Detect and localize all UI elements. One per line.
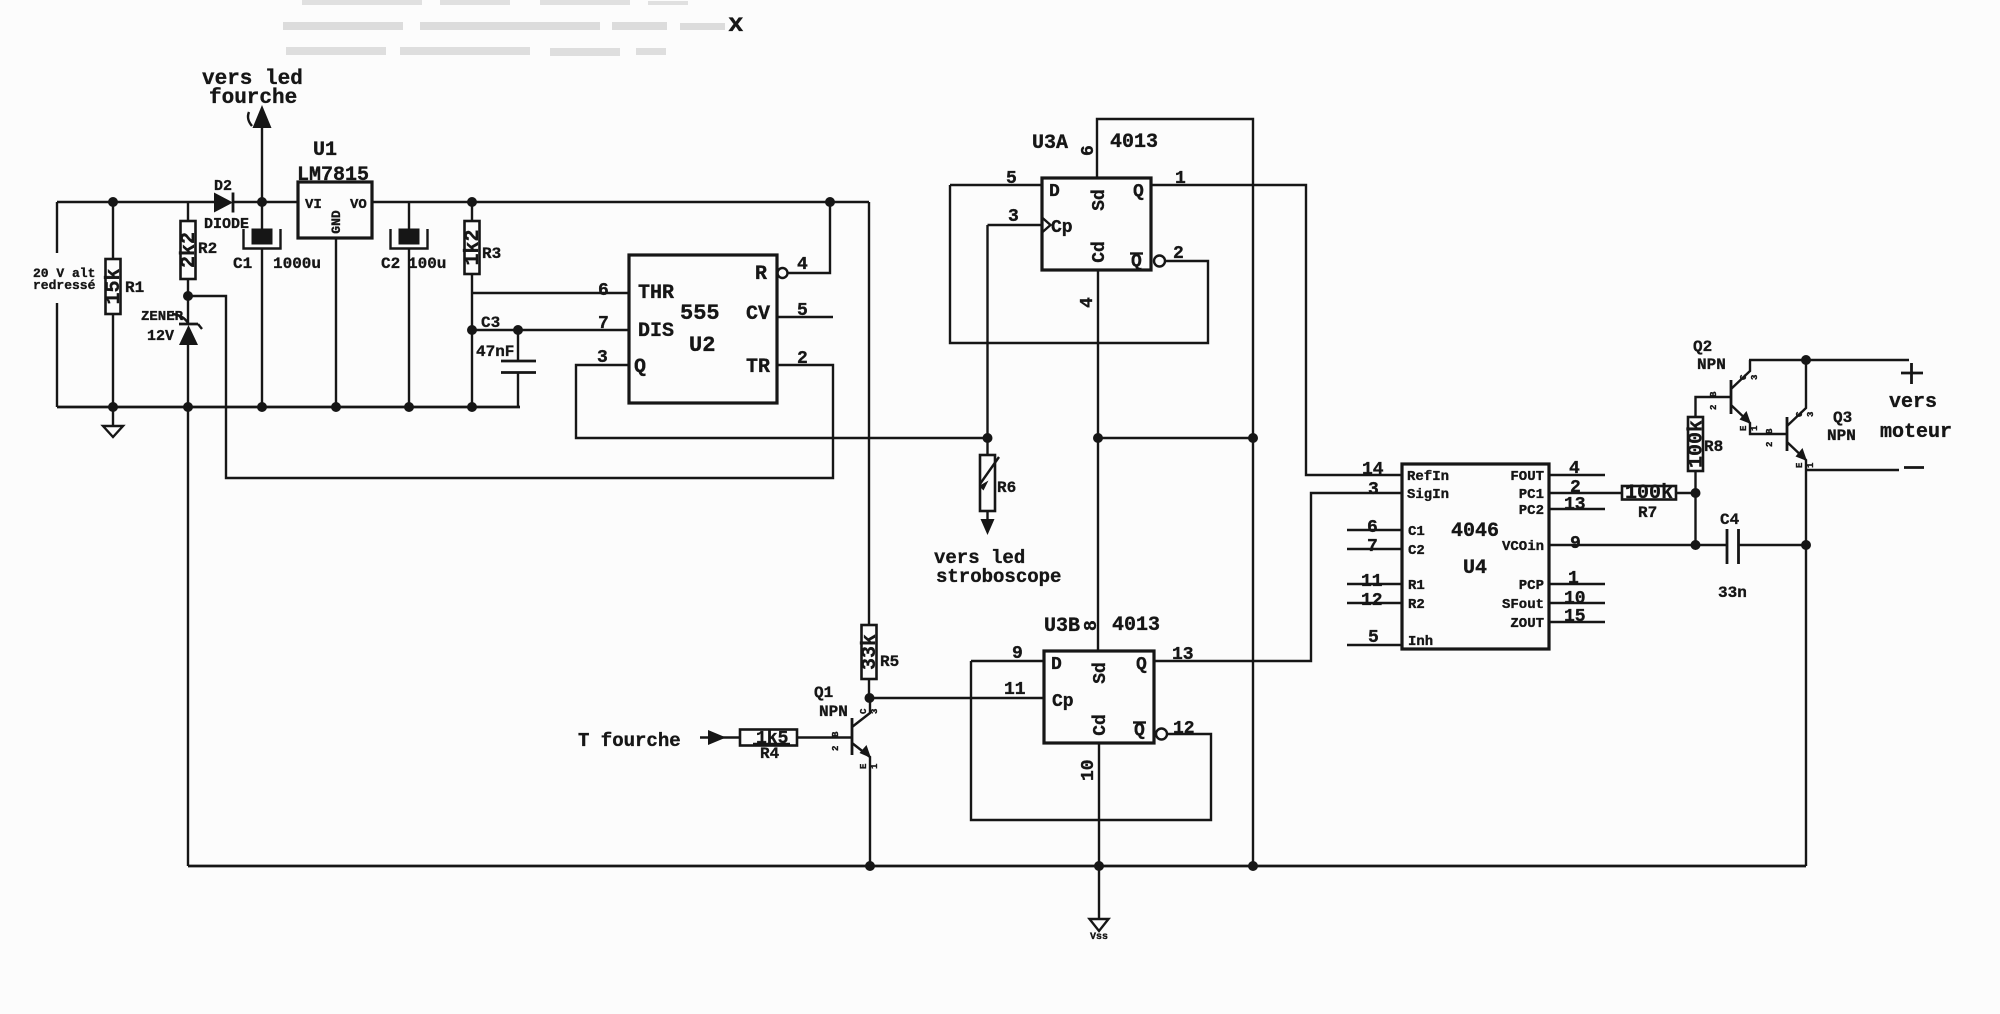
node dot R3 on rail	[467, 402, 477, 412]
svg-text:2: 2	[831, 746, 841, 751]
svg-text:DIODE: DIODE	[204, 216, 249, 233]
svg-text:6: 6	[1367, 518, 1378, 538]
svg-text:5: 5	[797, 301, 808, 321]
svg-text:12V: 12V	[147, 328, 174, 345]
wire FOUT pin 4 stub	[1549, 474, 1605, 476]
svg-text:E: E	[859, 763, 869, 769]
svg-text:1: 1	[1568, 569, 1579, 589]
scan artifact ghost text row 2	[283, 22, 725, 30]
svg-text:2: 2	[1173, 244, 1184, 264]
svg-text:U1: U1	[313, 139, 337, 162]
svg-text:Q3: Q3	[1833, 409, 1852, 427]
svg-text:PC2: PC2	[1519, 503, 1544, 519]
svg-text:B: B	[831, 731, 841, 737]
svg-text:1: 1	[1175, 169, 1186, 189]
label 20 V alt redresse	[30, 253, 100, 303]
svg-text:U3B: U3B	[1044, 615, 1080, 638]
svg-text:Q: Q	[634, 356, 646, 379]
svg-text:R6: R6	[997, 479, 1016, 497]
wire PC2 pin 13 stub	[1549, 508, 1605, 510]
svg-text:Q1: Q1	[814, 684, 833, 702]
node dot D2 cathode / C1 / led branch	[257, 197, 267, 207]
svg-text:VI: VI	[305, 197, 322, 213]
svg-text:13: 13	[1172, 645, 1194, 665]
svg-text:stroboscope: stroboscope	[936, 566, 1061, 588]
svg-text:C: C	[859, 708, 869, 714]
svg-text:4013: 4013	[1110, 131, 1158, 154]
svg-text:4013: 4013	[1112, 614, 1160, 637]
svg-text:2: 2	[797, 349, 808, 369]
wire R1 pin 11 stub	[1347, 583, 1402, 585]
flip-flop U3B 4013	[1044, 614, 1160, 743]
svg-text:6: 6	[598, 281, 609, 301]
svg-text:PCP: PCP	[1519, 578, 1544, 594]
svg-text:R: R	[755, 263, 767, 286]
svg-text:555: 555	[680, 301, 720, 326]
resistor R3	[462, 202, 501, 407]
svg-text:47nF: 47nF	[476, 343, 514, 361]
svg-text:2: 2	[1709, 405, 1719, 410]
wire U3A D pin 5	[950, 184, 1042, 186]
node dot R1 top	[108, 197, 118, 207]
Q1 pin letters C3 B2 E1	[831, 708, 880, 769]
svg-text:5: 5	[1368, 628, 1379, 648]
node dot Q3 collector on + rail	[1801, 355, 1811, 365]
svg-text:GND: GND	[329, 210, 344, 234]
wire U3B D pin 9	[971, 660, 1044, 662]
svg-text:R1: R1	[125, 279, 144, 297]
svg-text:33k: 33k	[859, 634, 882, 670]
node dot U3B Cd on bottom rail	[1094, 861, 1104, 871]
svg-text:R8: R8	[1704, 438, 1723, 456]
svg-text:7: 7	[1367, 537, 1378, 557]
svg-text:12: 12	[1361, 591, 1383, 611]
svg-text:15k: 15k	[103, 268, 126, 304]
svg-text:4046: 4046	[1451, 520, 1499, 543]
svg-text:1: 1	[870, 763, 880, 769]
svg-text:R5: R5	[880, 653, 899, 671]
svg-text:NPN: NPN	[1697, 356, 1726, 374]
wire U3A Cp pin 3	[988, 225, 1043, 438]
svg-text:D: D	[1049, 182, 1060, 202]
wire reset pin 4 to +V	[788, 202, 831, 273]
node dot C2 on rail	[404, 402, 414, 412]
svg-text:VCOin: VCOin	[1502, 539, 1544, 555]
svg-text:D: D	[1051, 655, 1062, 675]
wire VCOin pin 9	[1549, 544, 1727, 546]
svg-text:14: 14	[1362, 460, 1384, 480]
svg-text:U2: U2	[689, 333, 715, 358]
svg-text:4: 4	[1078, 297, 1098, 308]
capacitor C3 47nF	[476, 314, 536, 407]
svg-text:Cp: Cp	[1052, 692, 1074, 712]
svg-text:Sd: Sd	[1091, 662, 1111, 684]
wire ZOUT pin 15 stub	[1549, 621, 1605, 623]
svg-text:1: 1	[1806, 462, 1816, 468]
svg-text:9: 9	[1570, 534, 1581, 554]
svg-text:Q: Q	[1131, 252, 1142, 272]
svg-text:Q: Q	[1134, 721, 1145, 741]
svg-text:11: 11	[1004, 680, 1026, 700]
svg-text:ZENER: ZENER	[141, 309, 184, 325]
svg-text:C4: C4	[1720, 511, 1740, 529]
svg-text:C: C	[1795, 411, 1805, 417]
node dot U1 gnd on rail	[331, 402, 341, 412]
wire: left input vertical	[56, 202, 58, 407]
resistor R4	[740, 729, 852, 763]
svg-text:Vss: Vss	[1090, 932, 1108, 943]
svg-text:NPN: NPN	[1827, 427, 1856, 445]
scan artifact ghost text row 3	[286, 47, 666, 56]
svg-text:vers: vers	[1889, 391, 1937, 414]
node dot R5 / Q1 collector / U3B clock	[865, 693, 875, 703]
label vers moteur	[1880, 391, 1952, 444]
svg-text:B: B	[1709, 391, 1719, 397]
Q2 pin letters	[1709, 374, 1760, 431]
zener diode D1 12V	[172, 296, 202, 866]
timer U2 555	[629, 255, 777, 403]
node dot R1 bottom on rail	[108, 402, 118, 412]
wire U3A Cd pin 4 down to Vss rail segment	[1097, 270, 1099, 438]
wire U3B Q pin 13 to 4046 SigIn	[1154, 493, 1402, 661]
svg-text:Inh: Inh	[1408, 634, 1433, 650]
svg-text:12: 12	[1173, 719, 1195, 739]
wire PCP pin 1 stub	[1549, 583, 1605, 585]
svg-text:Cp: Cp	[1051, 218, 1073, 238]
svg-text:3: 3	[870, 709, 880, 714]
transistor Q1 NPN	[814, 684, 871, 866]
regulator U1 LM7815	[297, 139, 372, 238]
resistor R1	[103, 202, 144, 407]
svg-text:SigIn: SigIn	[1407, 487, 1449, 503]
svg-text:RefIn: RefIn	[1407, 469, 1449, 485]
wire +V feed down to R5	[868, 202, 870, 625]
svg-text:D2: D2	[214, 178, 232, 195]
svg-text:Q2: Q2	[1693, 338, 1712, 356]
svg-text:R7: R7	[1638, 504, 1657, 522]
svg-text:PC1: PC1	[1519, 487, 1544, 503]
svg-text:THR: THR	[638, 282, 674, 305]
svg-text:FOUT: FOUT	[1510, 469, 1544, 485]
input arrow T fourche	[700, 730, 740, 745]
node dot C1 on rail	[257, 402, 267, 412]
svg-text:U4: U4	[1463, 557, 1487, 580]
svg-text:10: 10	[1564, 589, 1586, 609]
svg-text:R4: R4	[760, 745, 780, 763]
svg-text:DIS: DIS	[638, 320, 674, 343]
resistor R5	[859, 625, 899, 698]
plus symbol	[1901, 363, 1923, 384]
svg-text:3: 3	[597, 348, 608, 368]
svg-text:C1: C1	[233, 255, 252, 273]
wire U3A Sd pin 6 loop over the top	[1097, 119, 1253, 866]
svg-text:Q: Q	[1136, 655, 1147, 675]
node dot Sd loop vertical on rail	[1248, 861, 1258, 871]
svg-text:15: 15	[1564, 607, 1586, 627]
node dot R3/C3/DIS junction	[467, 325, 477, 335]
wire U3B Cd pin 10 to bottom rail	[1098, 743, 1100, 866]
vers led fourche output arrow	[202, 68, 303, 202]
wire U3A Q pin 1 to 4046 RefIn	[1151, 185, 1402, 475]
svg-text:TR: TR	[746, 356, 770, 379]
motor + rail	[1749, 359, 1909, 361]
wire U1 GND pin	[335, 238, 337, 407]
svg-text:T fourche: T fourche	[578, 730, 681, 752]
wire C2 pin 7 stub	[1347, 548, 1402, 550]
svg-text:1: 1	[1750, 425, 1760, 431]
svg-text:2: 2	[1765, 442, 1775, 447]
svg-text:moteur: moteur	[1880, 421, 1952, 444]
Vss ground symbol	[1090, 866, 1109, 943]
svg-text:B: B	[1765, 428, 1775, 434]
svg-text:ZOUT: ZOUT	[1510, 616, 1544, 632]
svg-text:11: 11	[1361, 572, 1383, 592]
ground symbol	[103, 407, 123, 437]
svg-text:R3: R3	[482, 245, 501, 263]
svg-text:100k: 100k	[1625, 482, 1673, 505]
svg-text:13: 13	[1564, 495, 1586, 515]
svg-text:fourche: fourche	[209, 87, 297, 110]
wire Q3 emitter down to bottom rail	[1805, 470, 1807, 866]
wire TR pin 2 loop to zener node	[188, 296, 833, 478]
svg-text:U3A: U3A	[1032, 132, 1068, 155]
svg-text:1000u: 1000u	[273, 255, 321, 273]
svg-text:SFout: SFout	[1502, 597, 1544, 613]
transistor Q2 NPN	[1693, 338, 1787, 434]
U3A Qbar bubble	[1154, 256, 1165, 267]
node dot at 1098,438	[1093, 433, 1103, 443]
wire rail segment U3A Cd / U3B Sd to Vss line	[1098, 437, 1253, 439]
svg-text:100u: 100u	[408, 255, 446, 273]
label ZENER 12V	[141, 309, 184, 345]
svg-text:E: E	[1739, 425, 1749, 431]
resistor R2	[178, 202, 217, 296]
node dot Q1 emitter on bottom rail	[865, 861, 875, 871]
svg-text:33n: 33n	[1718, 584, 1747, 602]
node dot C4 right / emitter line	[1801, 540, 1811, 550]
svg-text:NPN: NPN	[819, 703, 848, 721]
capacitor C1 1000u	[233, 202, 321, 407]
capacitor C4 33n	[1718, 511, 1806, 602]
svg-text:R1: R1	[1408, 578, 1425, 594]
resistor R7 100k	[1622, 482, 1696, 522]
svg-text:10: 10	[1079, 759, 1099, 781]
svg-text:C3: C3	[481, 314, 500, 332]
U3B Qbar bubble	[1156, 729, 1167, 740]
svg-text:5: 5	[1006, 169, 1017, 189]
transistor Q3 NPN	[1787, 360, 1856, 470]
svg-text:R2: R2	[198, 240, 217, 258]
wire DIS pin 7	[472, 329, 629, 331]
svg-text:LM7815: LM7815	[297, 164, 369, 187]
wire R7 node down to VCOin line	[1694, 493, 1696, 545]
capacitor C2 100u	[381, 202, 446, 407]
wire THR pin 6	[472, 292, 629, 294]
svg-text:C1: C1	[1408, 524, 1425, 540]
motor - rail	[1806, 469, 1899, 471]
svg-text:VO: VO	[350, 197, 367, 213]
bottom Vss rail	[188, 865, 1806, 868]
svg-text:9: 9	[1012, 644, 1023, 664]
svg-text:redressé: redressé	[33, 278, 96, 293]
wire U3B Sd pin 8 up to rail segment	[1097, 438, 1099, 651]
svg-text:Cd: Cd	[1091, 714, 1111, 736]
diode D2	[204, 178, 249, 233]
svg-text:3: 3	[1368, 480, 1379, 500]
svg-text:CV: CV	[746, 303, 770, 326]
Q3 pin letters	[1765, 411, 1816, 468]
svg-text:E: E	[1795, 462, 1805, 468]
node dot at 1253,438	[1248, 433, 1258, 443]
node zener anode on ground rail	[183, 402, 193, 412]
node dot R7/R8 junction	[1691, 488, 1701, 498]
wire: main +V input wire segments at y=202	[57, 201, 869, 203]
node R2/zener junction	[183, 291, 193, 301]
pll U4 4046	[1402, 464, 1549, 650]
wire Q output pin 3 loop	[576, 365, 988, 438]
wire PC1 pin 2 to R7	[1549, 492, 1622, 494]
wire Inh pin 5 stub	[1347, 644, 1402, 646]
svg-text:x: x	[728, 9, 744, 39]
svg-text:R2: R2	[1408, 597, 1425, 613]
node dot pin4 on +V rail	[825, 197, 835, 207]
minus symbol	[1904, 466, 1924, 469]
node dot 555 output / R6 / U3A clock	[983, 433, 993, 443]
wire U3A D to Qbar feedback loop	[950, 185, 1208, 343]
svg-text:C2: C2	[381, 255, 400, 273]
svg-text:Sd: Sd	[1090, 189, 1110, 211]
node dot VCOin/C4 junction	[1691, 540, 1701, 550]
vers led stroboscope output arrow	[934, 511, 1061, 588]
svg-text:C: C	[1739, 374, 1749, 380]
wire CV pin 5 stub	[777, 316, 833, 318]
resistor R8 100k	[1686, 397, 1732, 493]
svg-text:Cd: Cd	[1090, 241, 1110, 263]
svg-text:7: 7	[598, 314, 609, 334]
flip-flop U3A 4013	[1032, 131, 1158, 272]
svg-text:Q: Q	[1133, 182, 1144, 202]
svg-text:3: 3	[1008, 207, 1019, 227]
555 reset pin 4 bubble	[778, 268, 788, 278]
wire R2 pin 12 stub	[1347, 602, 1402, 604]
scan artifact ghost text row 1	[302, 0, 688, 5]
wire C1 pin 6 stub	[1347, 529, 1402, 531]
svg-text:4: 4	[1569, 459, 1580, 479]
wire: supply ground rail y=407	[57, 406, 520, 409]
svg-text:4: 4	[797, 255, 808, 275]
wire SFout pin 10 stub	[1549, 602, 1605, 604]
resistor R6 (led driver)	[979, 438, 1016, 511]
svg-text:C2: C2	[1408, 543, 1425, 559]
svg-text:3: 3	[1806, 412, 1816, 417]
svg-text:3: 3	[1750, 375, 1760, 380]
wire U3B Cp pin 11 from Q1 collector	[870, 697, 1045, 699]
node dot R3 top	[467, 197, 477, 207]
wire U3B D to Qbar feedback loop	[971, 661, 1211, 820]
